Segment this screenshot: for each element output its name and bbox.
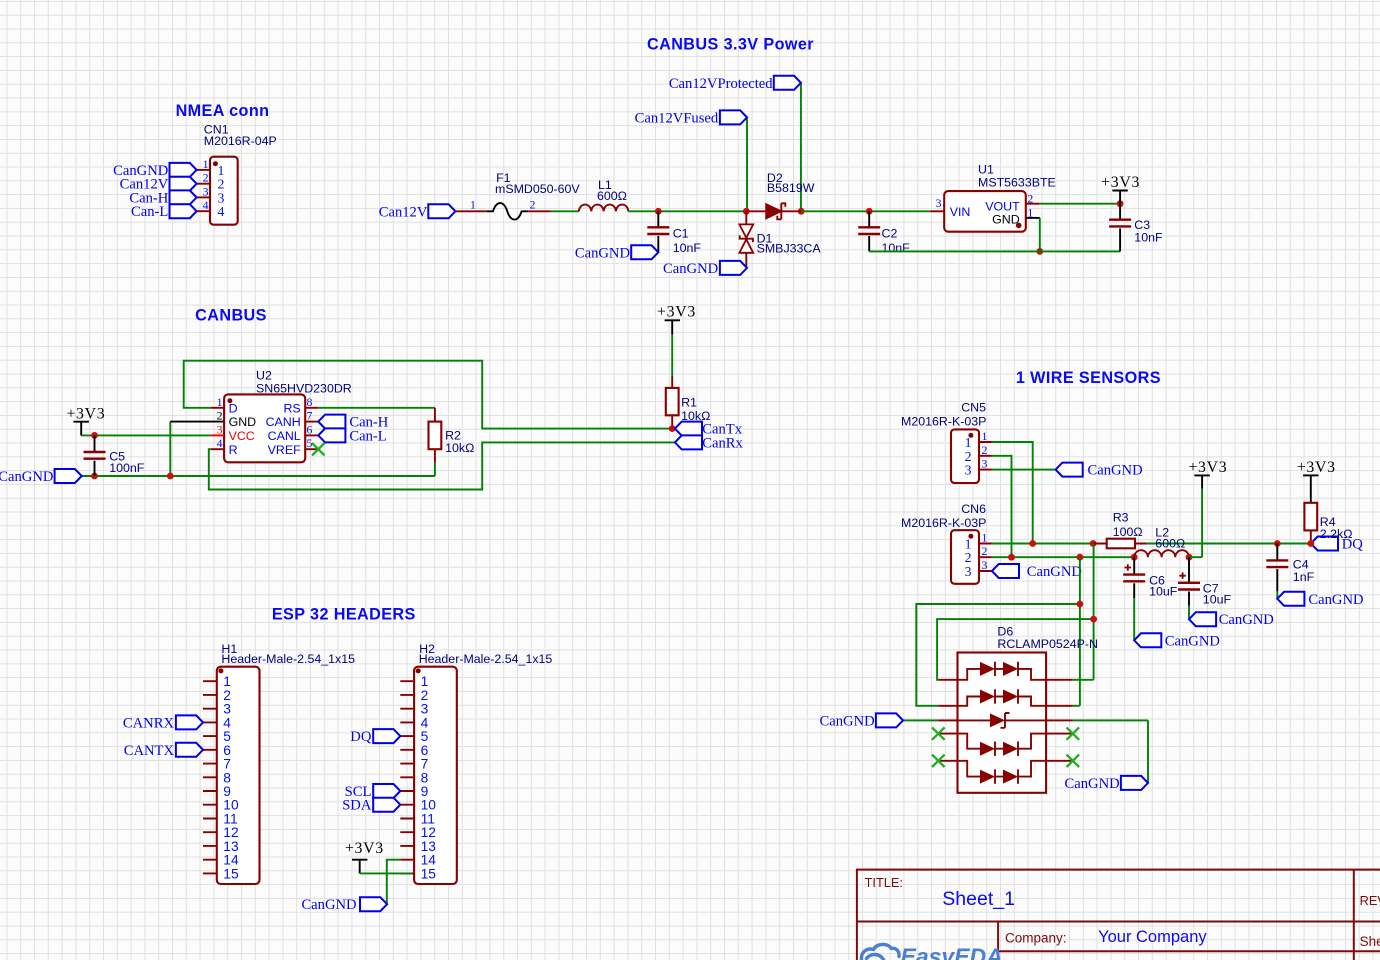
net flag CanGND (D6 bottom)	[1065, 776, 1148, 792]
D6 row2 diode pair	[958, 689, 1047, 706]
svg-text:CanGND: CanGND	[1027, 564, 1082, 580]
svg-text:2: 2	[982, 544, 988, 558]
wire F1 pin1	[455, 210, 486, 212]
power +3V3 (R4)	[1297, 459, 1336, 476]
junction L2 right / C7	[1186, 554, 1193, 561]
junction GND rail	[1036, 248, 1043, 255]
net flag CanGND (C6)	[1134, 633, 1220, 649]
svg-text:6: 6	[421, 743, 429, 758]
svg-text:100nF: 100nF	[109, 461, 145, 475]
svg-text:10: 10	[223, 798, 239, 813]
svg-text:M2016R-04P: M2016R-04P	[204, 134, 277, 148]
svg-text:10uF: 10uF	[1149, 584, 1178, 598]
net flag SDA (H2 pin10)	[342, 798, 400, 814]
svg-text:10nF: 10nF	[1134, 230, 1163, 244]
svg-text:B5819W: B5819W	[767, 181, 815, 195]
svg-text:CanGND: CanGND	[1308, 592, 1363, 608]
svg-text:R1: R1	[681, 396, 697, 410]
resistor R3 100	[1093, 510, 1146, 548]
wire C7 to CanGND	[1188, 606, 1190, 620]
svg-text:mSMD050-60V: mSMD050-60V	[495, 182, 580, 196]
svg-text:Sheet_1: Sheet_1	[942, 888, 1015, 910]
wire U2 pin2 GND vertical	[169, 422, 171, 476]
capacitor C3 10nF	[1109, 204, 1163, 252]
svg-text:CANRX: CANRX	[123, 715, 175, 731]
svg-text:4: 4	[217, 436, 223, 450]
svg-text:6: 6	[307, 422, 313, 436]
svg-text:4: 4	[218, 204, 225, 219]
net flag Can-L	[318, 428, 386, 444]
net flag CanGND (D6 left)	[820, 713, 903, 729]
no-connect X D6 right pin4	[1067, 727, 1080, 739]
svg-text:1: 1	[982, 429, 988, 443]
IC U2 SN65HVD230DR	[211, 368, 352, 462]
junction L2 left / C6	[1131, 554, 1138, 561]
wire pin3 CN1	[197, 196, 210, 198]
title block divider horizontal	[857, 921, 1380, 923]
no-connect X D6 left pin5	[932, 755, 945, 767]
svg-text:CanGND: CanGND	[1088, 463, 1143, 479]
wire main rail L1 to D2	[628, 210, 746, 212]
net flag Can-H	[318, 415, 388, 431]
svg-text:Your Company: Your Company	[1098, 928, 1207, 946]
wire D6 drop from row1	[1093, 544, 1095, 680]
svg-text:2: 2	[965, 449, 972, 464]
net flag DQ (H2 pin5)	[350, 729, 400, 745]
svg-text:M2016R-K-03P: M2016R-K-03P	[901, 516, 986, 530]
svg-text:15: 15	[223, 866, 239, 881]
svg-text:TITLE:: TITLE:	[865, 875, 903, 890]
capacitor C4 1nF	[1266, 544, 1314, 592]
svg-text:1: 1	[217, 395, 223, 409]
svg-text:1: 1	[965, 435, 972, 450]
svg-text:MST5633BTE: MST5633BTE	[978, 176, 1056, 190]
junction CanTx/R1	[669, 425, 676, 432]
wire CN5 pin1	[992, 442, 1033, 544]
svg-text:+3V3: +3V3	[1188, 459, 1227, 476]
inductor L1 600ohm	[579, 178, 628, 212]
power +3V3 (L2)	[1188, 459, 1227, 489]
svg-text:She: She	[1360, 934, 1380, 949]
diode array D6 RCLAMP0524P-N	[938, 624, 1098, 793]
svg-text:10: 10	[421, 798, 437, 813]
svg-text:3: 3	[218, 190, 225, 205]
svg-text:1: 1	[203, 157, 209, 171]
wire pin4 CN1	[197, 210, 210, 212]
svg-text:CanGND: CanGND	[1165, 633, 1220, 649]
resistor R2 10k	[429, 408, 475, 463]
wire U2 pin2 GND horizontal (black)	[170, 421, 224, 423]
power +3V3 (U1 out)	[1101, 174, 1140, 204]
net flag CanGND (CN5)	[1056, 463, 1143, 479]
svg-text:Header-Male-2.54_1x15: Header-Male-2.54_1x15	[419, 652, 553, 666]
wire L2 to +3V3	[1189, 489, 1202, 558]
junction +3V3/C5	[91, 432, 98, 439]
wire pin2 CN1	[197, 183, 210, 185]
svg-text:U2: U2	[256, 368, 272, 382]
svg-text:8: 8	[307, 395, 313, 409]
svg-text:1nF: 1nF	[1293, 570, 1315, 584]
svg-text:U1: U1	[978, 162, 994, 176]
svg-text:3: 3	[982, 457, 988, 471]
wire to L1	[551, 210, 579, 212]
svg-text:2: 2	[965, 550, 972, 565]
wire U2 pin4 R loop to CanRx	[209, 442, 675, 489]
header H1 Header-Male-2.54_1x15	[203, 642, 355, 884]
svg-text:3: 3	[203, 184, 209, 198]
junction C4	[1274, 540, 1281, 547]
junction row2 D6 drop	[1077, 554, 1084, 561]
net flag CanGND (C5 rail)	[0, 469, 82, 485]
svg-text:+3V3: +3V3	[657, 304, 696, 321]
svg-text:CanGND: CanGND	[663, 261, 718, 277]
net flag SCL (H2 pin9)	[345, 784, 401, 800]
svg-text:4: 4	[203, 198, 209, 212]
svg-text:+3V3: +3V3	[1101, 174, 1140, 191]
svg-text:ESP 32 HEADERS: ESP 32 HEADERS	[272, 606, 416, 624]
svg-text:CN5: CN5	[961, 401, 986, 415]
IC U1 MST5633BTE	[930, 162, 1055, 231]
svg-text:R: R	[229, 443, 238, 457]
no-connect X D6 left pin4	[932, 727, 945, 739]
junction VOUT/C3	[1117, 200, 1124, 207]
svg-text:2: 2	[1027, 191, 1033, 205]
junction row1 D6 drop	[1090, 540, 1097, 547]
junction row1 CN5	[1029, 540, 1036, 547]
junction line B	[1090, 616, 1097, 623]
capacitor C6 10uF polarized	[1123, 557, 1178, 598]
wire D6 line B	[937, 619, 1094, 680]
fuse F1 mSMD050-60V	[487, 171, 581, 220]
net flag CanTx	[675, 422, 743, 438]
net flag CanGND (C1)	[575, 245, 658, 261]
capacitor C7 10uF polarized	[1178, 557, 1231, 606]
svg-text:15: 15	[421, 866, 437, 881]
svg-text:600Ω: 600Ω	[597, 189, 627, 203]
svg-text:GND: GND	[229, 415, 257, 429]
net flag CanRx	[675, 435, 744, 451]
net flag CANTX (H1 pin6)	[124, 743, 203, 759]
power +3V3 (R1)	[657, 304, 696, 335]
svg-text:CanGND: CanGND	[820, 713, 875, 729]
power +3V3 (U2 VCC)	[66, 405, 105, 435]
wire GND rail	[82, 475, 435, 477]
diode D2 B5819W schottky	[746, 171, 814, 219]
svg-text:M2016R-K-03P: M2016R-K-03P	[901, 415, 986, 429]
svg-text:+3V3: +3V3	[1297, 459, 1336, 476]
title block divider REV column	[1353, 870, 1355, 960]
svg-text:1: 1	[218, 163, 225, 178]
junction D2 cathode	[798, 208, 805, 215]
svg-text:3: 3	[965, 463, 972, 478]
svg-text:CanGND: CanGND	[1219, 612, 1274, 628]
wire C4 to CanGND	[1276, 591, 1278, 599]
svg-text:2: 2	[203, 171, 209, 185]
title block divider logo cell	[997, 922, 999, 960]
svg-text:Can12VFused: Can12VFused	[635, 110, 719, 126]
junction pin2 gnd rail	[167, 473, 174, 480]
wire Can12VProtected vertical	[800, 83, 802, 212]
wire D6 right row1	[1073, 679, 1094, 681]
EasyEDA logo cloud	[861, 944, 899, 960]
svg-text:CANBUS 3.3V Power: CANBUS 3.3V Power	[647, 35, 814, 53]
svg-text:1: 1	[982, 531, 988, 545]
svg-text:CanGND: CanGND	[301, 897, 356, 913]
net flag CanGND (CN6 pin3)	[992, 564, 1082, 580]
svg-text:CANH: CANH	[266, 415, 301, 429]
wire U2 pin8 RS to R2	[318, 407, 435, 409]
svg-text:DQ: DQ	[350, 729, 372, 745]
svg-text:CanGND: CanGND	[1065, 776, 1120, 792]
svg-text:10nF: 10nF	[673, 241, 702, 255]
wire row2 CN6 pin2 to L2	[992, 556, 1134, 558]
wire D6 drop from row2	[1079, 557, 1081, 706]
wire R2 bottom to rail	[434, 463, 436, 476]
svg-text:10uF: 10uF	[1203, 592, 1232, 606]
junction C5 gnd	[91, 473, 98, 480]
wire U1 GND down	[1039, 218, 1041, 252]
wire D6 line A	[916, 604, 1080, 706]
svg-text:C1: C1	[673, 227, 689, 241]
junction DQ	[1307, 540, 1314, 547]
svg-text:D: D	[229, 401, 238, 415]
svg-text:Header-Male-2.54_1x15: Header-Male-2.54_1x15	[221, 652, 355, 666]
svg-text:3: 3	[982, 558, 988, 572]
D6 zener row	[958, 713, 1047, 728]
svg-text:+3V3: +3V3	[66, 405, 105, 422]
wire Can12VFused vertical	[746, 117, 748, 211]
svg-text:13: 13	[223, 839, 239, 854]
wire VCC rail +3V3 to pin3	[81, 434, 211, 436]
svg-text:Can-L: Can-L	[131, 204, 168, 220]
svg-text:VCC: VCC	[229, 429, 255, 443]
svg-text:3: 3	[936, 196, 942, 210]
svg-text:2: 2	[530, 198, 536, 212]
wire row1 CN6 pin1 to R3	[992, 543, 1093, 545]
svg-text:2: 2	[421, 688, 429, 703]
svg-text:3: 3	[965, 564, 972, 579]
svg-text:10kΩ: 10kΩ	[445, 441, 474, 455]
svg-text:2: 2	[223, 688, 231, 703]
title block frame	[857, 870, 1380, 960]
svg-text:CN6: CN6	[961, 502, 986, 516]
svg-text:RCLAMP0524P-N: RCLAMP0524P-N	[997, 637, 1098, 651]
net flag Can12VProtected	[669, 76, 801, 92]
svg-text:1: 1	[1027, 206, 1033, 220]
svg-text:+3V3: +3V3	[345, 840, 384, 857]
wire D6 right row2	[1073, 705, 1080, 707]
title block divider sheet row	[998, 950, 1380, 952]
net flag CanGND (CN1 pin1)	[113, 163, 196, 179]
no-connect X D6 right pin5	[1067, 755, 1080, 767]
net flag CANRX (H1 pin4)	[123, 715, 203, 731]
svg-text:CanRx: CanRx	[702, 435, 743, 451]
wire +3V3 to R1	[671, 335, 673, 376]
svg-text:GND: GND	[992, 212, 1020, 226]
wire CanGND to D6 left pin3	[903, 719, 938, 721]
diode D1 SMBJ33CA TVS	[739, 211, 821, 268]
junction row2 CN5	[1008, 554, 1015, 561]
net flag DQ	[1311, 537, 1363, 553]
D6 row1 diode pair	[958, 662, 1047, 680]
no-connect X U2 pin5	[312, 443, 325, 455]
svg-text:CANBUS: CANBUS	[195, 307, 267, 325]
svg-text:5: 5	[307, 436, 313, 450]
capacitor C5 100nF	[84, 435, 145, 476]
svg-text:EasyEDA: EasyEDA	[901, 944, 1003, 960]
svg-text:REV: REV	[1360, 893, 1380, 908]
svg-text:7: 7	[307, 409, 313, 423]
svg-text:C2: C2	[882, 227, 898, 241]
wire +3V3 to H2 pin15	[360, 872, 412, 874]
wire CN5 pin3 to CanGND	[992, 469, 1056, 471]
svg-text:RS: RS	[283, 401, 300, 415]
svg-text:2.2kΩ: 2.2kΩ	[1320, 527, 1353, 541]
svg-text:600Ω: 600Ω	[1155, 537, 1185, 551]
wire D2 to U1	[801, 210, 930, 212]
resistor R1 10k	[666, 376, 711, 429]
svg-text:SMBJ33CA: SMBJ33CA	[757, 242, 822, 256]
svg-text:2: 2	[982, 443, 988, 457]
D6 row4 diode pair	[958, 734, 1047, 756]
junction C1	[655, 208, 662, 215]
junction C2	[866, 208, 873, 215]
wire U2 pin1 D loop to CanTx	[184, 361, 673, 429]
junction line A	[1077, 601, 1084, 608]
svg-text:3: 3	[217, 422, 223, 436]
svg-text:SDA: SDA	[342, 798, 372, 814]
svg-text:NMEA conn: NMEA conn	[176, 102, 270, 120]
svg-text:VIN: VIN	[950, 205, 971, 219]
wire row1 R3 to DQ	[1146, 543, 1310, 545]
wire pin1 CN1	[197, 169, 210, 171]
net flag Can12V (input)	[379, 204, 456, 220]
svg-text:6: 6	[223, 743, 231, 758]
net flag Can12VFused	[635, 110, 747, 126]
wire GND rail C2-C3	[869, 250, 1120, 252]
resistor R4 2.2k	[1304, 475, 1352, 543]
net flag CanGND (C4)	[1277, 592, 1363, 608]
svg-text:Company:: Company:	[1005, 930, 1067, 945]
svg-text:CanGND: CanGND	[575, 245, 630, 261]
connector CN5 M2016R-K-03P	[901, 401, 992, 483]
net flag CanGND (D1)	[663, 261, 747, 277]
svg-text:2: 2	[217, 409, 223, 423]
capacitor C1 10nF	[647, 211, 701, 255]
D6 row5 diode pair	[958, 761, 1047, 784]
svg-text:CANTX: CANTX	[124, 743, 175, 759]
svg-text:100Ω: 100Ω	[1113, 525, 1143, 539]
net flag Can-L (CN1 pin4)	[131, 204, 197, 220]
connector CN6 M2016R-K-03P	[901, 502, 992, 584]
svg-text:10nF: 10nF	[882, 241, 911, 255]
net flag Can-H (CN1 pin3)	[129, 190, 196, 206]
capacitor C2 10nF	[858, 211, 910, 255]
wire C6 to CanGND	[1133, 598, 1135, 640]
net flag Can12V (CN1 pin2)	[120, 177, 197, 193]
svg-text:VREF: VREF	[268, 443, 301, 457]
svg-text:13: 13	[421, 839, 437, 854]
wire H2 pin14 to CanGND	[387, 860, 401, 905]
svg-text:CANL: CANL	[268, 429, 301, 443]
wire U1 VOUT to +3V3	[1040, 203, 1120, 205]
power +3V3 (H2 pin15)	[345, 840, 384, 873]
junction D1/D2	[743, 208, 750, 215]
svg-text:1: 1	[470, 198, 476, 212]
svg-text:Can12VProtected: Can12VProtected	[669, 76, 773, 92]
net flag CanGND (C7)	[1189, 612, 1274, 628]
wire D6 right pin3 to CanGND	[1073, 720, 1148, 783]
inductor L2 600ohm	[1134, 526, 1189, 558]
svg-text:Can-L: Can-L	[349, 428, 386, 444]
connector CN1 M2016R-04P	[203, 123, 277, 225]
wire F1 pin2	[528, 210, 551, 212]
svg-text:R3: R3	[1113, 510, 1129, 524]
svg-text:CanGND: CanGND	[0, 469, 53, 485]
net flag CanGND (H2 pin14)	[301, 897, 387, 913]
svg-text:Can12V: Can12V	[379, 204, 428, 220]
wire CN5 pin2	[992, 456, 1012, 557]
svg-text:1 WIRE SENSORS: 1 WIRE SENSORS	[1016, 369, 1161, 387]
header H2 Header-Male-2.54_1x15	[400, 642, 552, 884]
